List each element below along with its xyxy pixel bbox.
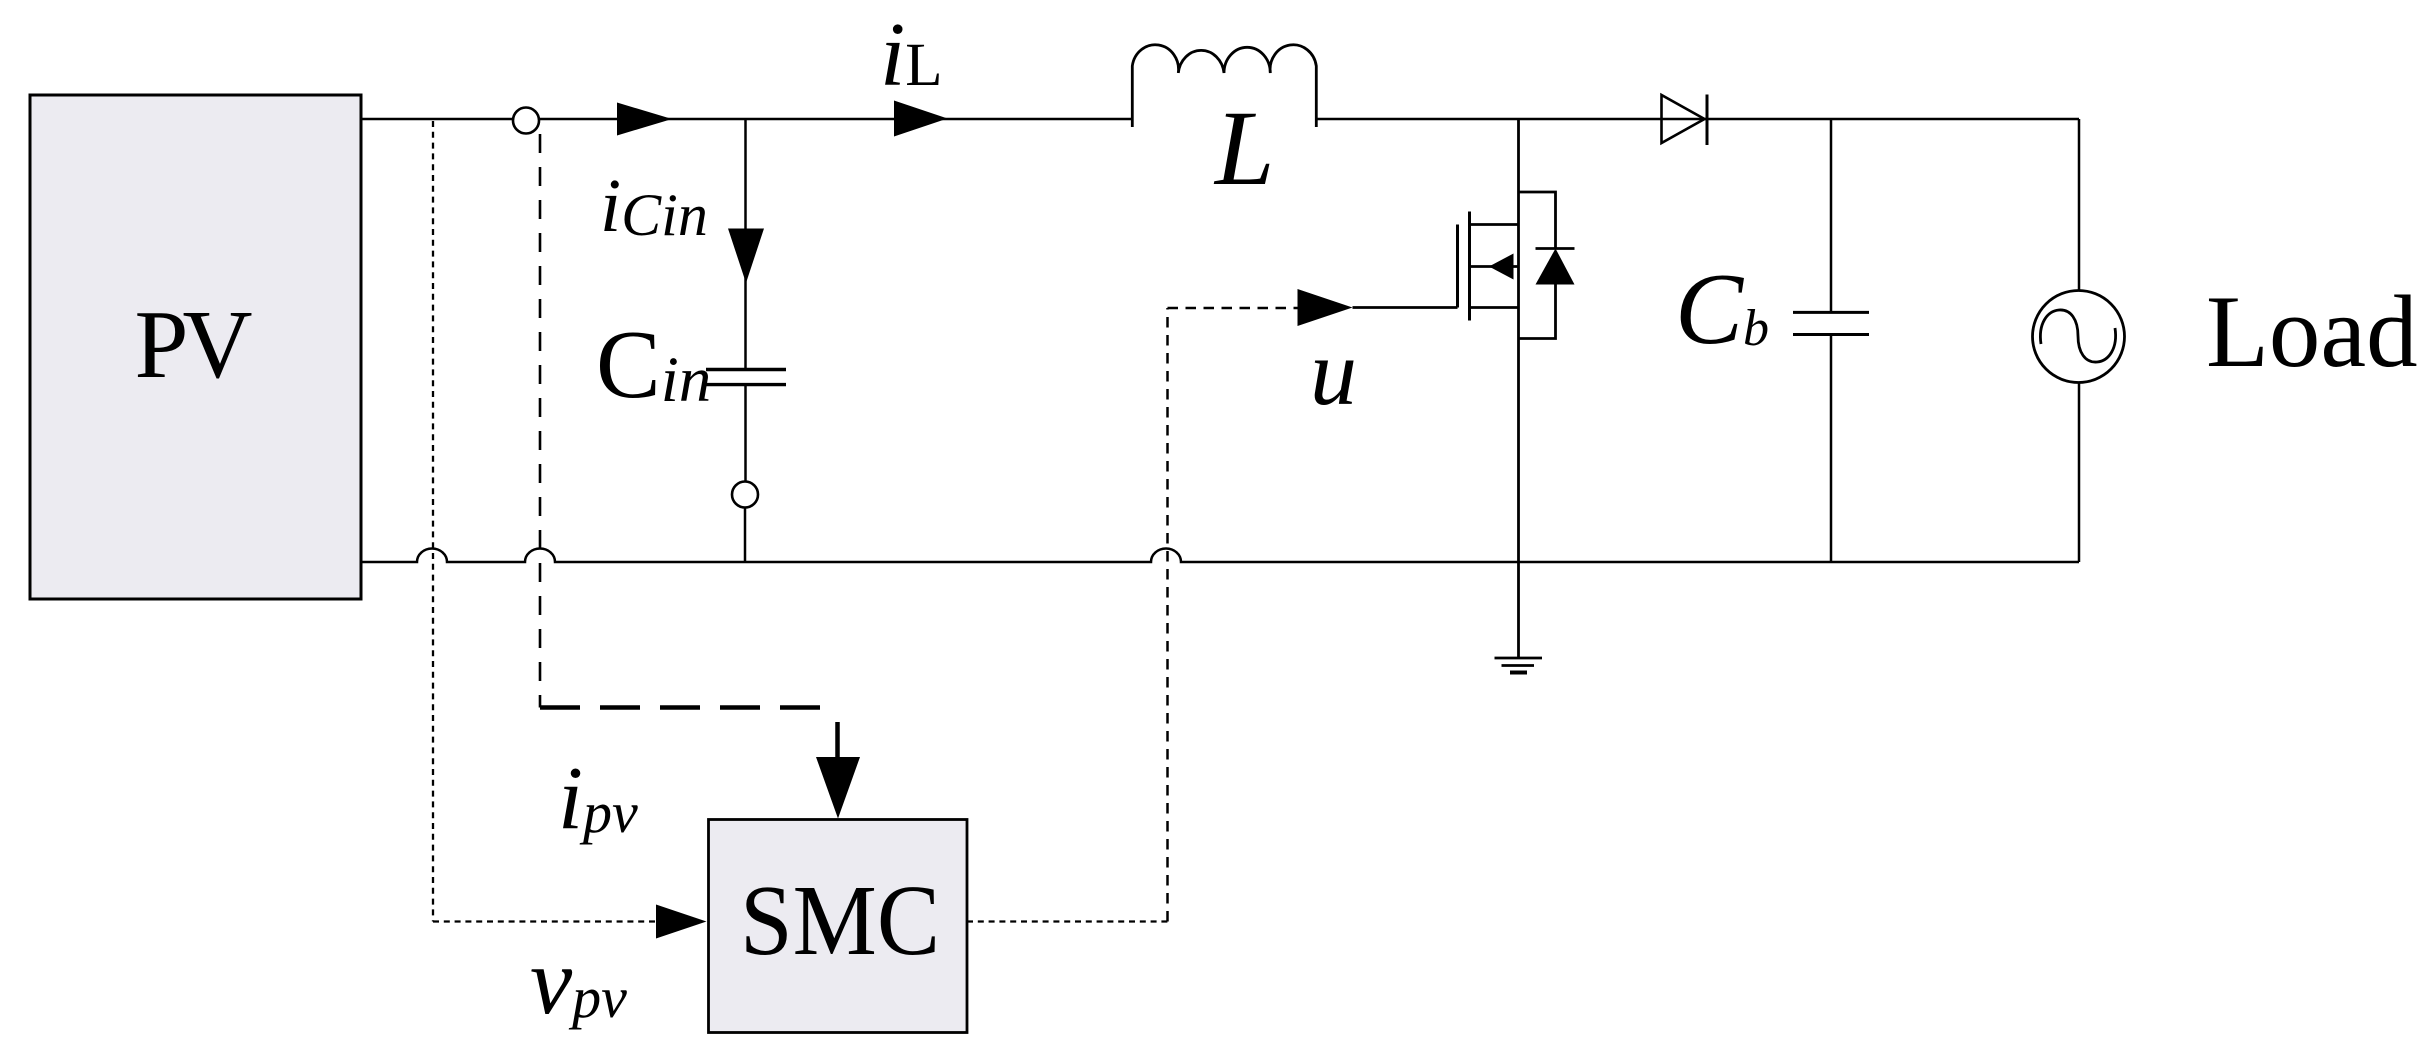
wire load branch upper xyxy=(2078,119,2081,291)
Q1 body diode connection bottom xyxy=(1519,285,1556,339)
wire Cin branch upper xyxy=(744,119,747,368)
dashed control line to gate xyxy=(1168,307,1300,310)
ipv arrow stem xyxy=(835,722,840,758)
capacitor Cin xyxy=(706,368,786,371)
wire gate lead xyxy=(1353,306,1458,309)
svg-text:L: L xyxy=(1213,90,1275,208)
AC load source circle xyxy=(2033,291,2125,383)
arrow vpv into SMC xyxy=(656,905,707,939)
Q1 drain stub xyxy=(1470,223,1519,226)
svg-text:PV: PV xyxy=(135,291,253,398)
Q1 body diode triangle xyxy=(1536,249,1575,285)
wire circle to bottom bus xyxy=(744,508,747,563)
dashed control line vertical xyxy=(1166,308,1169,922)
node sensor circle on top wire xyxy=(513,108,539,134)
arrow current direction after PV xyxy=(617,103,672,136)
Q1 body diode cathode bar xyxy=(1536,247,1575,250)
arrow iL current xyxy=(894,101,948,137)
dashed sense line vpv vertical xyxy=(432,121,434,922)
capacitor Cb plates xyxy=(1793,311,1869,314)
arrow u gate drive xyxy=(1298,289,1353,326)
PV source block xyxy=(30,95,361,599)
wire bottom bus with hops xyxy=(361,549,2079,563)
arrow ipv into SMC xyxy=(816,757,860,819)
capacitor Cb branch upper xyxy=(1830,119,1833,311)
Q1 gate bar xyxy=(1456,225,1459,308)
dashed sense line vpv horizontal xyxy=(433,920,658,922)
wire load branch lower xyxy=(2078,383,2081,563)
ground xyxy=(1495,657,1543,660)
dashed control line from SMC right xyxy=(967,920,1168,922)
Q1 channel bar xyxy=(1468,212,1471,321)
dashed sense line ipv vertical xyxy=(539,134,542,708)
transistor Q1 MOSFET trunk xyxy=(1517,119,1520,658)
Q1 body diode connection top xyxy=(1519,192,1556,249)
capacitor Cb branch lower xyxy=(1830,336,1833,562)
dashed thick line ipv horizontal xyxy=(540,705,838,710)
svg-text:SMC: SMC xyxy=(740,864,940,976)
SMC controller block xyxy=(709,820,968,1033)
inductor L xyxy=(1132,45,1316,127)
wire top bus PV to inductor xyxy=(361,118,1133,121)
wire Cin branch lower xyxy=(744,386,747,482)
svg-text:Load: Load xyxy=(2206,275,2417,389)
Q1 body stub with arrow xyxy=(1470,265,1519,268)
svg-text:u: u xyxy=(1310,321,1357,425)
Q1 source stub xyxy=(1470,306,1519,309)
wire top bus inductor to load corner xyxy=(1316,118,2079,121)
arrow iCin down xyxy=(728,229,764,284)
node circle Cin bottom xyxy=(732,482,758,508)
diode D1 xyxy=(1662,95,1705,143)
AC sine symbol xyxy=(2040,310,2115,362)
